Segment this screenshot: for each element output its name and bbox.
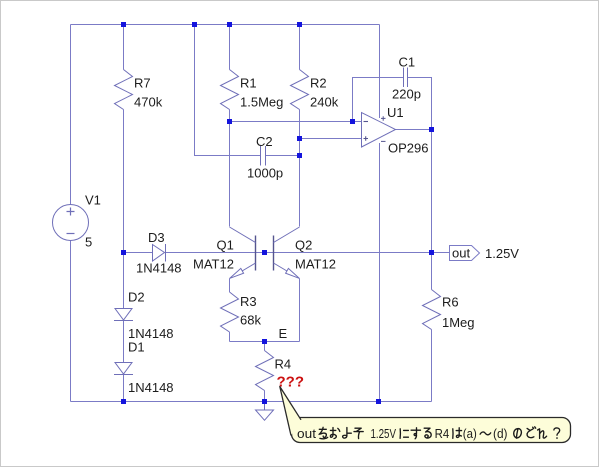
svg-text:240k: 240k: [310, 95, 339, 110]
wire op-amp V- supply to bottom rail: [379, 143, 381, 402]
svg-text:C1: C1: [399, 55, 416, 70]
svg-text:D3: D3: [148, 230, 165, 245]
wire C2 branch vertical from top rail: [195, 25, 261, 156]
junction supply column / bottom rail: [376, 399, 381, 404]
callout tail: [280, 387, 301, 436]
svg-text:1Meg: 1Meg: [442, 315, 475, 330]
kana o: [330, 428, 339, 439]
resistor R4: [256, 351, 274, 391]
junction top rail / C2 branch: [192, 22, 197, 27]
svg-text:R4: R4: [275, 357, 292, 372]
resistor R6: [423, 290, 441, 330]
junction top rail / R7: [121, 22, 126, 27]
wire between D2 and D1: [123, 321, 125, 363]
svg-text:C2: C2: [256, 134, 273, 149]
junction D1 / bottom rail: [121, 399, 126, 404]
svg-text:470k: 470k: [134, 95, 163, 110]
svg-text:1000p: 1000p: [247, 166, 283, 181]
wire R7 column middle (to D3 node and D2): [123, 110, 125, 309]
wire op-amp V+ supply from top rail: [379, 25, 381, 119]
kana ni: [400, 429, 408, 439]
junction R4 / ground / bottom rail: [262, 399, 267, 404]
op-amp U1: [362, 113, 396, 148]
svg-text:1.25V: 1.25V: [485, 246, 519, 261]
svg-text:D2: D2: [128, 290, 145, 305]
svg-text:Q2: Q2: [295, 238, 312, 253]
wire bottom rail: [71, 401, 432, 403]
wire R1 bottom to Q1 collector: [229, 110, 231, 227]
wire Q1 emitter to R3: [229, 279, 231, 293]
wire inverting input (R1 node to op-amp): [230, 121, 362, 123]
diode D2: [114, 309, 133, 321]
junction D3 anode / R7 column: [121, 250, 126, 255]
tilde: [480, 432, 491, 435]
kana su: [411, 428, 420, 439]
svg-text:R4: R4: [435, 426, 450, 441]
wire R2 column top: [299, 25, 301, 70]
svg-text:68k: 68k: [240, 313, 261, 328]
svg-text:R7: R7: [134, 76, 151, 91]
wire R7 column top: [123, 25, 125, 70]
svg-text:out: out: [452, 246, 470, 261]
svg-text:1N4148: 1N4148: [136, 261, 182, 276]
svg-text:MAT12: MAT12: [193, 257, 234, 272]
wire C1 right lead: [408, 78, 432, 130]
junction R2 column / C2 right: [297, 153, 302, 158]
wire top rail: [71, 24, 380, 26]
svg-text:R3: R3: [240, 294, 257, 309]
junction R1 / inverting input: [227, 119, 232, 124]
svg-text:E: E: [279, 326, 288, 341]
resistor R2: [291, 70, 309, 110]
svg-text:V1: V1: [85, 193, 101, 208]
junction Q1/Q2 bases: [262, 250, 267, 255]
wire non-inverting input (R2 node to op-amp): [300, 138, 362, 140]
kana ha: [453, 428, 462, 439]
callout balloon: [280, 387, 571, 443]
svg-text:1N4148: 1N4148: [128, 380, 174, 395]
wire Q2 emitter down: [299, 279, 301, 342]
wire R1 column top: [229, 25, 231, 70]
wire R6 bottom to bottom rail: [431, 330, 433, 402]
kana no: [514, 429, 522, 439]
voltage source V1: [53, 205, 89, 241]
svg-text:5: 5: [85, 235, 92, 250]
svg-text:(a): (a): [463, 426, 477, 441]
ground: [256, 402, 274, 421]
wire out node to port flag: [432, 252, 450, 254]
svg-text:D1: D1: [128, 340, 145, 355]
wire base rail (D3 anode side): [124, 252, 153, 254]
out port flag: [450, 246, 480, 261]
resistor R3: [221, 292, 239, 332]
junction top rail / R1: [227, 22, 232, 27]
wire R3 bottom to E rail: [229, 332, 231, 342]
resistor R1: [221, 70, 239, 110]
svg-text:OP296: OP296: [388, 141, 428, 156]
wire R4 bottom to rail: [264, 391, 266, 402]
callout kana (drawn as paths): [319, 427, 560, 439]
svg-text:1.25V: 1.25V: [371, 426, 397, 441]
wire C2 right to R2 column: [266, 155, 300, 157]
wire E rail: [230, 341, 300, 343]
kana so: [354, 428, 363, 438]
diode D1: [114, 363, 133, 375]
capacitor C1: [404, 68, 408, 88]
junction top rail / R2: [297, 22, 302, 27]
svg-text:U1: U1: [387, 105, 404, 120]
svg-text:R2: R2: [310, 76, 327, 91]
wire R2 bottom to Q2 collector: [299, 110, 301, 227]
svg-text:MAT12: MAT12: [295, 257, 336, 272]
svg-text:(d): (d): [493, 426, 508, 441]
junction C1 left / inverting input: [350, 119, 355, 124]
svg-text:220p: 220p: [392, 87, 421, 102]
junction out node: [429, 250, 434, 255]
svg-text:R6: R6: [442, 295, 459, 310]
svg-text:out: out: [297, 426, 316, 441]
kana wo: [319, 427, 328, 439]
wire E node to R4: [264, 342, 266, 351]
junction R2 / non-inverting input: [297, 136, 302, 141]
junction op-amp output / C1 right: [429, 127, 434, 132]
transistor Q2: [274, 227, 300, 279]
kana re: [538, 429, 547, 439]
wire left rail upper: [70, 25, 72, 205]
svg-text:1.5Meg: 1.5Meg: [240, 95, 283, 110]
kana do: [527, 427, 536, 438]
wire base rail (D3 cathode to out column): [166, 252, 432, 254]
kana yo: [343, 428, 352, 438]
wire D1 to bottom rail: [123, 375, 125, 402]
junction node E / R4: [262, 339, 267, 344]
wire output column (to out node and R6): [431, 130, 433, 290]
fullwidth question mark: [554, 428, 560, 438]
capacitor C2: [261, 146, 266, 166]
transistor Q1: [230, 227, 256, 279]
wire C1 left lead: [353, 78, 404, 122]
svg-text:R1: R1: [240, 76, 257, 91]
wire left rail lower: [70, 241, 72, 402]
wire op-amp output: [396, 129, 432, 131]
diode D3: [153, 244, 166, 262]
svg-text:Q1: Q1: [217, 238, 234, 253]
kana ru: [424, 428, 431, 438]
resistor R7: [115, 70, 133, 110]
